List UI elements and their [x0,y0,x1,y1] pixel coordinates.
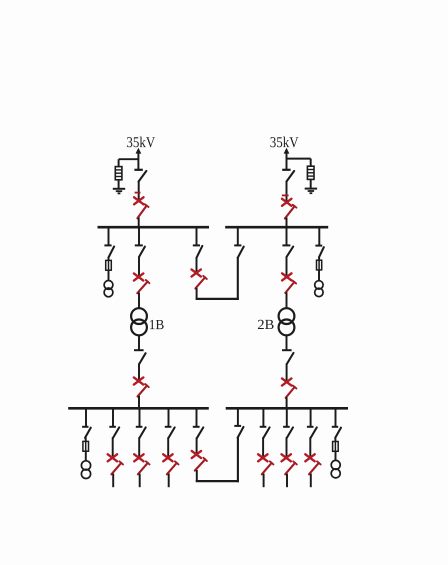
wire: FV1 lower lead [118,180,120,189]
node: 35kV label (line 1) [127,137,155,148]
fuse FU4 [333,442,339,452]
wire: QS53 to QF7 [286,363,288,382]
wire: tap to surge arrester FV2 [287,158,311,160]
feeder R2 disconnector blade [287,427,293,438]
feeder L1 outgoing disconnector (red blade) [111,461,123,474]
wire: QS34 to bus III [138,396,140,409]
wire: QS32 to transformer 1B [138,293,140,309]
wire: QS54 to bus IV [286,397,288,408]
arrowhead: incoming source 1 [136,148,142,154]
feeder L3 disconnector blade [169,427,175,438]
wire: bus I stub to QS31 [138,227,140,245]
wire: bus stub to feeder L2 disconnector [139,408,141,427]
feeder R1 disconnector blade [263,427,269,438]
wire: FV2 lower lead [310,179,312,188]
wire: QS51 to QF6 [286,257,288,278]
PT2 disconnector blade [319,247,324,257]
voltage transformer PT2 (lower circle) [315,288,323,296]
QS31 T-bar [135,244,143,246]
breaker QF7 (red X) [282,378,291,385]
wire: feeder L3 to breaker [167,437,169,458]
wire: PT4 blade to fuse [334,437,336,441]
QS33 T-bar [134,349,144,351]
PT2 disconnector T-bar [315,245,322,247]
breaker QF3 (red X) [134,273,143,280]
node: 35kV label (line 2) [270,137,298,148]
feeder R3 breaker (red X) [305,454,314,461]
wire: QS31 to QF3 [138,257,140,278]
label 1B [150,320,164,329]
breaker QF6 (red X) [282,273,291,280]
voltage transformer PT2 (upper circle) [315,281,323,289]
PT3 disconnector blade [85,428,91,438]
wire: upper tie horizontal run [196,298,239,300]
feeder R1 breaker (red X) [258,454,267,461]
feeder L3 disconnector T-bar [165,426,172,428]
ground: FV2 earth [305,189,317,194]
wire: bus IV stub to PT4 disconnector [335,408,337,427]
wire: feeder R1 outgoing stub [263,474,265,488]
wire: feeder L1 to breaker [112,437,114,458]
feeder R3 outgoing disconnector (red blade) [309,461,321,474]
tie QS43 T-bar [234,244,241,246]
transformer 1B primary winding [131,308,147,324]
feeder L2 disconnector blade [140,427,146,438]
disconnector QS54 (red blade) [286,385,297,397]
disconnector QS32 (red blade) [137,280,149,293]
wire: feeder R3 to breaker [309,437,311,458]
bus I (35kV left section) [98,226,210,229]
feeder L3 outgoing disconnector (red blade) [167,461,179,474]
wire: feeder L1 outgoing stub [112,474,114,488]
feeder L3 breaker (red X) [163,454,172,461]
PT1 disconnector blade [109,247,115,258]
fuse FU2 [317,260,322,270]
wire: QS22 to bus II [286,218,288,228]
disconnector QS11 blade [139,171,147,182]
transformer 2B secondary winding [279,320,295,336]
bus III (lower-left section) [68,407,209,410]
feeder R3 disconnector T-bar [307,426,314,428]
wire: incoming 2 shaft [286,153,288,170]
feeder R2 disconnector T-bar [283,426,290,428]
voltage transformer PT1 (lower circle) [104,288,113,297]
wire: bus stub to feeder L3 disconnector [168,408,170,427]
tick above breaker QF2 [282,194,289,196]
wire: bus III stub to tie QS61 [196,408,198,427]
wire: bus stub to feeder R3 disconnector [310,408,312,427]
feeder L2 disconnector T-bar [136,426,143,428]
wire: tie riser to QS43 [237,257,239,300]
wire: feeder R2 to breaker [286,437,288,458]
QS31 blade [139,247,145,257]
fuse FU3 [83,441,89,451]
breaker QF2 (red X) [282,199,291,206]
wire: bus IV stub to QS63 [237,408,239,426]
disconnector contact (line 2 upper T-bar) [282,169,290,171]
wire: feeder L2 outgoing stub [139,474,141,488]
wire: transformer 2B to QS53 [286,335,288,350]
wire: fuse FU3 to PT3 [85,451,87,461]
feeder L1 disconnector blade [113,427,119,438]
wire: fuse FU2 to PT2 [318,270,320,281]
wire: QS11 to QF1 [138,181,140,201]
wire: bus III stub to PT3 disconnector [85,408,87,427]
wire: QS41 to tie breaker [196,257,198,273]
wire: FV1 upper lead [118,159,120,166]
wire: fuse FU1 to PT1 [108,270,110,280]
arrowhead: incoming source 2 [284,148,290,154]
feeder L2 outgoing disconnector (red blade) [138,461,150,474]
wire: feeder R3 outgoing stub [310,474,312,488]
PT4 disconnector blade [335,428,341,438]
voltage transformer PT1 (upper circle) [104,281,113,290]
bus II (35kV right section) [225,226,328,229]
wire: QS62 down to tie corner [196,470,198,481]
voltage transformer PT4 (upper circle) [331,460,340,469]
tie QS63 blade [238,427,244,438]
wire: lower tie horizontal run [196,480,239,482]
wire: PT2 blade to fuse [318,257,320,260]
wire: bus stub to feeder L1 disconnector [112,408,114,427]
QS33 blade [139,353,145,364]
tie disconnector QS62 (red blade) [195,458,207,471]
feeder L1 disconnector T-bar [109,426,116,428]
wire: feeder L2 to breaker [138,437,140,458]
disconnector QS52 (red blade) [285,280,296,292]
label 2B [258,320,274,329]
feeder L2 breaker (red X) [134,454,143,461]
QS51 T-bar [282,244,290,246]
PT4 disconnector T-bar [332,426,338,428]
wire: bus I stub to tie QS41 [196,227,198,245]
bus IV (lower-right section) [226,407,348,410]
surge arrester FV1 [115,167,122,180]
wire: bus II stub to PT2 disconnector [318,227,320,245]
voltage transformer PT4 (lower circle) [331,469,340,478]
wire: QS42 down to tie corner [196,288,198,299]
tie QS61 blade [197,427,204,438]
disconnector QS34 (red blade) [138,384,149,396]
feeder R1 disconnector T-bar [260,426,267,428]
tie QS61 T-bar [193,426,200,428]
voltage transformer PT3 (lower circle) [81,469,90,478]
disconnector QS21 blade [286,171,294,182]
feeder R1 outgoing disconnector (red blade) [262,461,274,474]
tie QS63 T-bar [234,425,241,427]
PT3 disconnector T-bar [82,426,88,428]
wire: QS12 to bus I [138,218,140,228]
wire: QS21 to QF2 [286,181,288,203]
voltage transformer PT3 (upper circle) [81,461,90,470]
QS53 blade [287,353,294,364]
transformer 1B secondary winding [131,320,147,336]
wire: PT3 blade to fuse [85,437,87,441]
wire: bus II stub to QS43 [237,227,239,245]
surge arrester FV2 [307,166,314,179]
wire: feeder R1 to breaker [262,437,264,458]
wire: bus II stub to QS51 [286,227,288,245]
wire: PT1 blade to fuse [108,257,110,261]
wire: QS52 to transformer 2B [286,292,288,308]
breaker QF4 (red X) [134,377,143,384]
wire: tie riser to QS63 [237,437,239,482]
disconnector QS22 (red blade) [285,205,297,219]
wire: feeder L3 outgoing stub [168,474,170,488]
bus-tie breaker QF5 (red X) [192,269,201,276]
wire: tap to surge arrester FV1 [119,158,139,160]
wire: bus I stub to PT1 disconnector [108,227,110,245]
disconnector QS12 (red blade) [137,204,148,218]
fuse FU1 [106,260,112,270]
tie QS41 T-bar [193,244,200,246]
wire: bus stub to feeder R2 disconnector [286,408,288,427]
feeder R2 breaker (red X) [282,454,291,461]
wire: fuse FU4 to PT4 [335,451,337,460]
tick above breaker QF1 [135,192,141,194]
wire: feeder R2 outgoing stub [286,474,288,488]
PT1 disconnector T-bar [104,244,111,246]
tie disconnector QS42 (red blade) [195,276,206,289]
ground: FV1 earth [113,189,125,194]
transformer 2B primary winding [279,308,295,324]
feeder L1 breaker (red X) [108,454,117,461]
wire: QS61 to tie breaker QF8 [196,438,198,455]
disconnector contact (line 1 upper T-bar) [134,169,142,171]
wire: transformer 1B to QS33 [138,335,140,350]
tie QS41 blade [197,246,203,258]
wire: incoming 1 shaft [137,153,139,170]
feeder R2 outgoing disconnector (red blade) [285,461,297,474]
bus-tie breaker QF8 (red X) [192,451,201,458]
QS51 blade [287,247,294,257]
breaker QF1 (red X) [134,197,143,204]
QS53 T-bar [282,349,292,351]
feeder R3 disconnector blade [311,427,317,438]
wire: FV2 upper lead [310,159,312,167]
tie QS43 blade [238,247,244,258]
wire: bus stub to feeder R1 disconnector [262,408,264,427]
wire: QS33 to QF4 [138,363,140,381]
